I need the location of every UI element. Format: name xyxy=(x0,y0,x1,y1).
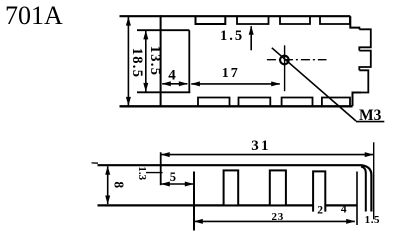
svg-text:17: 17 xyxy=(222,66,240,81)
top-right corner step xyxy=(350,16,359,29)
hole centerline dash-dot xyxy=(267,59,327,61)
svg-text:1.3: 1.3 xyxy=(136,166,148,180)
dim 31 line xyxy=(161,154,373,156)
bottom-right corner step xyxy=(353,93,362,107)
dim 13.5 line xyxy=(145,31,147,92)
top edge tab A xyxy=(196,16,226,24)
inner rectangle right xyxy=(188,30,190,92)
bottom edge tab A xyxy=(198,98,230,107)
top edge tab B xyxy=(237,16,269,24)
svg-text:1.5: 1.5 xyxy=(365,214,381,226)
dim 31 right extension xyxy=(373,142,375,219)
svg-text:4: 4 xyxy=(341,203,347,215)
dim 5 arrow xyxy=(161,183,193,185)
svg-text:701A: 701A xyxy=(5,1,63,30)
dim 1.5 arrow (top view) xyxy=(250,26,252,50)
hole M3 circle xyxy=(280,56,289,65)
svg-text:18.5: 18.5 xyxy=(129,48,145,79)
outline top edge xyxy=(120,15,351,17)
svg-text:23: 23 xyxy=(271,211,284,223)
dim 8 line xyxy=(107,166,109,204)
right edge tab 3 xyxy=(359,70,368,92)
dim 23 line xyxy=(194,220,355,222)
hole vertical extension line xyxy=(284,45,286,91)
base bottom line xyxy=(98,204,358,206)
left extension line (31 / 5) xyxy=(160,152,162,185)
right edge tab 2 xyxy=(359,51,371,71)
svg-text:4: 4 xyxy=(168,68,176,84)
svg-text:1.5: 1.5 xyxy=(220,28,244,44)
top edge tab D xyxy=(320,16,350,24)
stray scan tick left of top plate line xyxy=(92,162,99,164)
outline bottom edge xyxy=(120,105,353,107)
dim 17 arrow xyxy=(191,83,279,85)
svg-text:31: 31 xyxy=(251,138,270,154)
inner rectangle bottom xyxy=(137,91,190,93)
svg-text:13.5: 13.5 xyxy=(147,46,163,77)
inner rectangle top xyxy=(137,29,189,31)
outline left edge xyxy=(160,15,162,107)
dim 4 arrow xyxy=(162,83,187,85)
top edge tab C xyxy=(280,16,310,24)
right wall inner-most line / 23 extension xyxy=(356,172,358,226)
svg-text:5: 5 xyxy=(170,170,176,184)
bottom edge tab B xyxy=(239,98,271,107)
svg-text:2: 2 xyxy=(317,205,323,217)
plate thickness leader (1.3) xyxy=(146,172,163,174)
leader underline M3 xyxy=(356,121,384,123)
right wall inner line xyxy=(361,167,366,212)
block right face / 23 left extension xyxy=(193,172,195,231)
dim 18.5 line xyxy=(127,17,129,106)
bottom edge tab C xyxy=(282,98,313,107)
top plate line xyxy=(98,165,372,211)
bottom edge tab D xyxy=(322,98,350,107)
svg-text:M3: M3 xyxy=(359,107,382,124)
fin A xyxy=(224,170,239,205)
leader line M3 xyxy=(272,48,356,121)
fin C (pin, 2 wide) xyxy=(313,171,325,211)
right edge tab 1 xyxy=(359,29,371,50)
svg-text:8: 8 xyxy=(111,181,126,188)
fin B xyxy=(270,170,286,205)
